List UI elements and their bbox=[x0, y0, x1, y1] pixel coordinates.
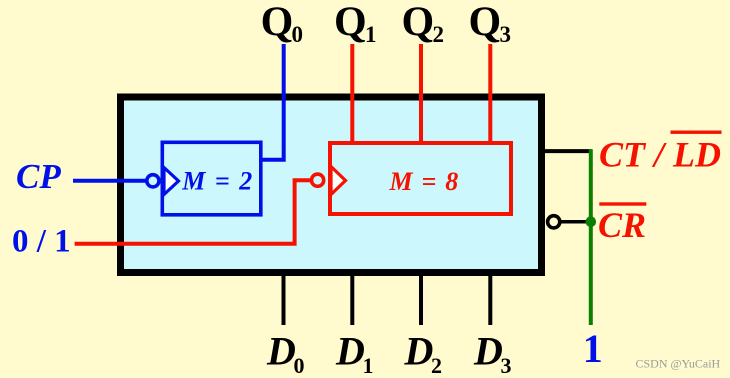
svg-text:M = 2: M = 2 bbox=[181, 167, 253, 196]
svg-text:2: 2 bbox=[431, 353, 442, 378]
clock wedge of M=2 bbox=[164, 168, 179, 195]
svg-text:Q: Q bbox=[469, 0, 502, 46]
svg-text:CT / LD: CT / LD bbox=[599, 134, 721, 174]
clock bubble of M=8 bbox=[312, 174, 324, 186]
svg-text:3: 3 bbox=[501, 353, 512, 378]
wire CP input (blue) bbox=[73, 179, 146, 183]
clock wedge of M=8 bbox=[331, 167, 346, 195]
CR active-low bubble bbox=[548, 216, 560, 228]
svg-text:1: 1 bbox=[363, 353, 374, 378]
svg-text:D: D bbox=[404, 329, 434, 374]
counter block body (big box) bbox=[121, 97, 542, 273]
wire D1 bbox=[350, 272, 354, 325]
svg-text:Q: Q bbox=[261, 0, 294, 46]
wire CT/LD (black) bbox=[540, 149, 592, 153]
svg-text:D: D bbox=[335, 329, 365, 374]
svg-text:CP: CP bbox=[16, 157, 61, 196]
wire Q2 (red) bbox=[419, 44, 423, 143]
svg-text:1: 1 bbox=[365, 22, 377, 47]
wire Q0 (blue) bbox=[260, 44, 284, 160]
wire D2 bbox=[419, 272, 423, 325]
wire Q3 (red) bbox=[488, 44, 492, 143]
wire 0/1 input (red) bbox=[75, 180, 310, 244]
svg-text:D: D bbox=[266, 329, 296, 374]
wire Q1 (red) bbox=[350, 44, 354, 143]
svg-text:3: 3 bbox=[500, 22, 512, 47]
svg-text:Q: Q bbox=[402, 0, 435, 46]
wire green net (tied to 1) bbox=[589, 149, 593, 325]
svg-text:Q: Q bbox=[334, 0, 367, 46]
svg-text:CSDN @YuCaiH: CSDN @YuCaiH bbox=[636, 357, 721, 371]
svg-text:0 / 1: 0 / 1 bbox=[12, 224, 71, 260]
svg-text:D: D bbox=[473, 329, 503, 374]
svg-text:2: 2 bbox=[433, 22, 445, 47]
wire D0 bbox=[282, 272, 286, 325]
svg-text:0: 0 bbox=[292, 22, 304, 47]
svg-text:CR: CR bbox=[598, 205, 646, 245]
junction dot on green net bbox=[586, 216, 597, 227]
wire CR bubble to green net bbox=[560, 220, 589, 224]
wire D3 bbox=[488, 272, 492, 325]
svg-text:1: 1 bbox=[583, 326, 603, 371]
overline of LD bbox=[671, 131, 722, 134]
svg-text:0: 0 bbox=[294, 353, 305, 378]
overline of CR bbox=[599, 202, 646, 205]
clock bubble of M=2 bbox=[147, 175, 159, 187]
svg-text:M = 8: M = 8 bbox=[389, 167, 460, 196]
divide-by-8 block M=8 bbox=[330, 143, 511, 214]
divide-by-2 block M=2 bbox=[162, 142, 260, 215]
